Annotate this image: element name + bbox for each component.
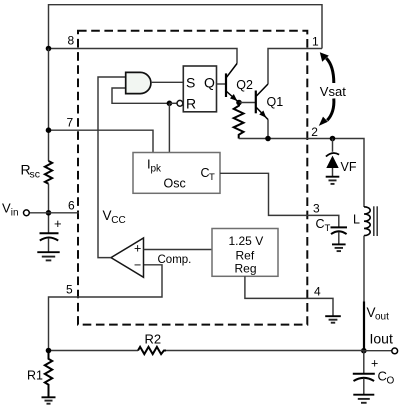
svg-text:+: + [134,242,141,256]
inductor L [364,207,370,236]
wire Q1 emitter to pin2 rail [267,120,269,139]
svg-text:R2: R2 [145,331,162,346]
wire pin 5 from comparator minus to R1R2 node [49,265,163,351]
svg-text:3: 3 [313,201,320,215]
wire AND gate bottom input loop to R line [112,88,169,103]
svg-text:Q: Q [204,74,215,90]
svg-text:Q2: Q2 [236,78,253,92]
svg-text:S: S [186,74,195,90]
wire comparator output to AND gate top input [98,77,126,258]
svg-text:R: R [186,95,196,111]
node R-line junction [167,101,173,107]
node diode tap on pin2 [330,136,336,142]
resistor Rsc [45,161,52,184]
node pin6 junction [46,210,52,216]
svg-text:L: L [353,213,360,227]
svg-text:VF: VF [341,160,357,174]
wire left rail pin8 to Rsc [48,49,50,162]
terminal Iout circle [392,348,398,354]
wire AND output to latch S input [151,81,183,83]
wire Rsc to pin6 node [48,184,50,233]
wire Q2 emitter to Q1 base [239,102,256,104]
resistor R1 [45,351,52,397]
svg-text:−: − [134,258,141,272]
svg-text:in: in [11,207,19,218]
node Q1 emitter on pin2 [265,136,271,142]
svg-text:8: 8 [68,34,75,48]
svg-text:Ref: Ref [236,248,255,262]
wire inductor to output node [363,236,365,302]
svg-text:T: T [325,223,331,234]
node Q2 emitter junction [236,100,242,106]
wire pin6 into IC [29,212,79,214]
wire R-line junction down to Ipk block [168,103,170,152]
block 1.25V Ref Reg [212,229,278,277]
svg-text:4: 4 [314,284,321,298]
svg-text:5: 5 [66,282,73,296]
svg-text:R1: R1 [27,369,43,383]
block Ipk Osc [133,153,220,194]
node R1R2 junction [46,348,52,354]
Vsat curved arrow upper [326,58,334,83]
ground CO [353,395,374,403]
svg-text:1: 1 [312,34,319,48]
svg-text:C: C [378,369,387,384]
ground input cap [37,252,59,260]
svg-text:Vsat: Vsat [320,84,346,99]
resistor R2 [138,347,166,354]
capacitor CO [353,351,395,395]
wire pin 7 to Ipk block [49,130,154,152]
node pin7 junction [46,127,52,133]
svg-text:Q1: Q1 [267,95,284,109]
transistor Q2 [226,64,239,103]
wire comparator plus input to ref block [144,249,213,251]
wire Q1 collector to pin 1 [268,49,322,85]
wire pin 8 to Q2 collector [49,49,238,64]
svg-text:pk: pk [151,164,163,175]
resistor Q2 emitter pulldown [234,103,244,139]
svg-text:Comp.: Comp. [158,254,192,266]
svg-text:6: 6 [68,199,75,213]
wire output node to terminal [364,350,392,352]
svg-text:Reg: Reg [235,261,257,275]
capacitor input (polarized) [40,216,62,252]
comparator U-comp triangle [111,238,144,277]
terminal Vin circle [24,210,30,216]
wire top rail pin8 to pin1 [49,5,323,49]
svg-text:O: O [387,376,395,387]
node output junction [361,348,367,354]
Vsat curved arrow lower [327,99,334,121]
svg-text:out: out [375,312,389,323]
wire CT output pin 3 [220,173,339,227]
ground VF [326,177,340,184]
svg-text:V: V [103,208,112,223]
wire R junction to bubble [169,102,177,104]
ground R1 [42,397,56,403]
transistor Q1 [256,84,268,120]
svg-text:+: + [54,216,62,231]
ground CT [332,244,346,251]
wire pin 2 rail [239,139,364,208]
diode VF [326,139,357,177]
wire bottom feedback rail R2 [49,350,139,352]
capacitor CT [331,227,348,244]
svg-text:2: 2 [311,125,318,139]
svg-text:V: V [2,200,11,215]
svg-text:1.25 V: 1.25 V [229,234,264,248]
svg-text:C: C [316,217,325,231]
ground pin4 [325,316,341,323]
wire ref reg to pin 4 ground [245,276,333,316]
AND gate U2 [126,72,151,93]
svg-text:sc: sc [30,169,41,181]
svg-text:Osc: Osc [164,177,186,191]
wire latch Q output to Q2 base [217,83,227,85]
dashed IC boundary box [78,31,307,325]
svg-text:CC: CC [111,215,125,226]
latch U3 box [183,66,216,112]
svg-text:Iout: Iout [370,330,393,346]
svg-text:T: T [209,172,215,183]
svg-text:7: 7 [67,115,74,129]
node pin8 junction [46,46,52,52]
latch R input bubble [177,100,183,106]
